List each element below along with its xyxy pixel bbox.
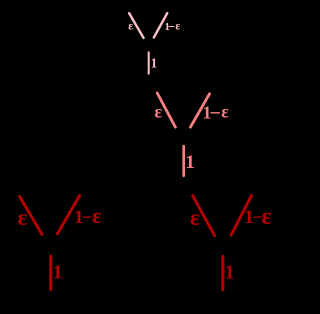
svg-text:ε: ε — [190, 205, 200, 231]
level-1 left tree (dark red) — [18, 195, 103, 289]
level-1 left tree: left branch (weight ε) — [20, 197, 42, 235]
svg-text:ε: ε — [261, 204, 271, 230]
svg-text:1: 1 — [185, 152, 195, 173]
level-3 left branch (weight ε) — [129, 13, 144, 38]
svg-text:1: 1 — [225, 261, 235, 283]
level-1 left tree: right branch (weight 1−ε) — [57, 195, 79, 233]
label 1−ε on level-1 right tree right branch — [244, 204, 271, 230]
label 1−ε on level-3 right branch — [165, 19, 181, 34]
level-2 left branch (weight ε) — [157, 93, 175, 127]
svg-text:ε: ε — [92, 203, 102, 228]
level-1 right tree: left branch (weight ε) — [193, 196, 215, 236]
level-2 tree (salmon) — [154, 93, 229, 176]
svg-text:1: 1 — [151, 55, 158, 70]
svg-text:ε: ε — [18, 205, 28, 231]
svg-text:ε: ε — [221, 101, 229, 121]
svg-text:−: − — [168, 19, 175, 34]
label 1−ε on level-1 left tree right branch — [74, 203, 102, 228]
svg-text:−: − — [82, 207, 92, 227]
level-3 stem (weight 1) — [148, 52, 150, 73]
level-3 right branch (weight 1−ε) — [154, 13, 168, 37]
svg-text:ε: ε — [128, 21, 133, 33]
level-2 right branch (weight 1−ε) — [190, 94, 209, 127]
level-1 right tree: right branch (weight 1−ε) — [231, 196, 251, 236]
svg-text:1: 1 — [53, 261, 63, 283]
svg-text:ε: ε — [154, 101, 162, 121]
label 1−ε on level-2 right branch — [202, 101, 229, 124]
level-1 left tree: stem (weight 1) — [49, 256, 52, 290]
level-2 stem (weight 1) — [182, 146, 185, 176]
level-1 right tree: stem (weight 1) — [221, 256, 224, 289]
level-1 right tree (dark red) — [190, 196, 272, 290]
svg-text:ε: ε — [175, 21, 180, 33]
level-3 tree (pink) — [128, 13, 180, 74]
svg-text:−: − — [210, 103, 221, 125]
